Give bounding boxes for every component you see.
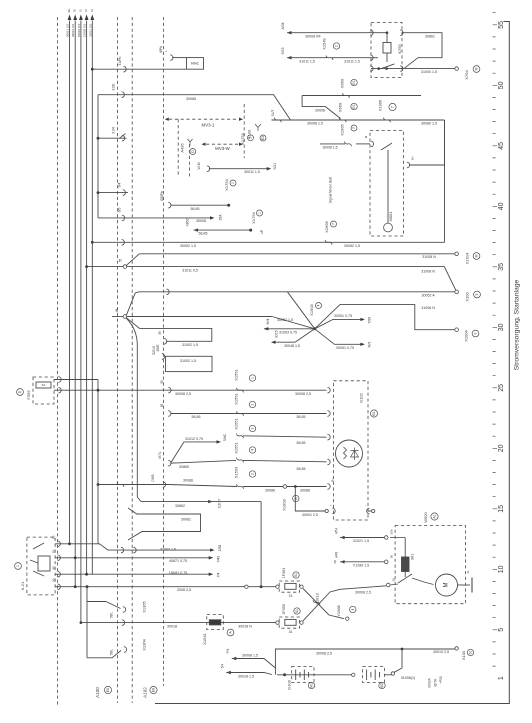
arrow head bus 30012	[73, 15, 77, 21]
svg-text:Ø5/Pb: Ø5/Pb	[160, 191, 164, 201]
motor circle inside M001	[384, 223, 393, 232]
svg-text:31: 31	[289, 594, 293, 598]
terminal Y1988 open circle	[346, 617, 349, 620]
svg-text:30085: 30085	[186, 97, 196, 101]
fan wire loop row 328	[140, 328, 212, 341]
terminal X1614 open circle	[455, 252, 459, 256]
junction on X1903B row for G102 low pin	[294, 485, 297, 488]
wire K-21 pin85 row	[55, 573, 210, 575]
junction row 649 at x402	[401, 648, 404, 651]
fuse F354 box	[279, 581, 299, 592]
svg-text:B1: B1	[372, 411, 376, 415]
circle 4 X1551	[249, 447, 255, 453]
svg-text:M: M	[475, 67, 479, 70]
svg-text:45: 45	[498, 142, 505, 150]
connector arc at A102 right edge row 485	[163, 482, 166, 488]
svg-text:2: 2	[251, 403, 255, 405]
svg-text:30048 1,5: 30048 1,5	[284, 344, 300, 348]
wire diagonal 543 to 550	[100, 544, 109, 550]
svg-text:Stromversorgung, Startanlage: Stromversorgung, Startanlage	[513, 279, 520, 370]
svg-text:2: 2	[251, 473, 255, 475]
wire 30040 horizontal	[92, 68, 186, 70]
relay K-21 coil box	[38, 556, 50, 571]
svg-text:58,85: 58,85	[192, 415, 201, 419]
svg-text:E1: E1	[352, 80, 356, 84]
svg-text:X1966: X1966	[324, 220, 329, 232]
wire diagonal into row 501	[137, 497, 141, 502]
wire 31002 row 550	[108, 549, 212, 551]
inline connector X1541 box	[207, 615, 224, 630]
wire F399 lower out 30008	[54, 389, 170, 391]
wire 130L row 57 left	[287, 57, 327, 59]
svg-text:X1754: X1754	[224, 178, 229, 190]
svg-text:X1551: X1551	[234, 368, 239, 380]
svg-text:61: 61	[469, 651, 473, 655]
wire stub M001 left	[356, 143, 370, 145]
wire bus 30011 vertical	[69, 21, 71, 544]
arrowhead MV3-1 left	[165, 118, 169, 121]
svg-text:X1541: X1541	[202, 632, 207, 644]
svg-text:30008 2,5: 30008 2,5	[175, 392, 191, 396]
connector X1551 pin 3	[237, 434, 244, 439]
svg-text:X1903: X1903	[282, 498, 287, 510]
wire 30008 row 120	[272, 119, 445, 121]
svg-text:31002 1,5: 31002 1,5	[182, 343, 198, 347]
wire Y1289 1,5	[340, 561, 384, 563]
wire row 486 to G102 B+	[287, 486, 327, 488]
junction on vertical (row 192)	[97, 191, 100, 194]
svg-text:30008 1,5: 30008 1,5	[322, 146, 337, 150]
wire row 205 to splice X1754	[170, 204, 228, 206]
circle 1 at X1754 pin1	[248, 135, 254, 141]
circle 61 at F355	[294, 608, 300, 614]
svg-text:30086: 30086	[265, 488, 275, 492]
connector arc at A102 edge row 413	[168, 411, 171, 417]
wire net2 staircase	[302, 96, 340, 119]
svg-text:30012 0,5: 30012 0,5	[71, 24, 75, 38]
connector arc G102 row413	[327, 411, 330, 417]
wire loop 30081	[128, 508, 201, 540]
svg-text:6: 6	[474, 332, 478, 334]
svg-text:31011 1,5: 31011 1,5	[299, 59, 315, 63]
connector arc K-21 pin 86	[58, 541, 61, 547]
svg-text:3: 3	[251, 427, 255, 429]
svg-text:55: 55	[119, 259, 123, 263]
connector arc G102 row486 B+	[327, 484, 330, 490]
svg-text:30008 1,5: 30008 1,5	[242, 653, 258, 657]
circle D at F399	[17, 389, 24, 396]
wire row 486 to X1903B	[168, 485, 237, 487]
wire row 501 extension	[210, 501, 262, 503]
terminal circle E6 of A100	[104, 686, 111, 693]
wire crossover northeast arm diagonal	[315, 319, 333, 328]
circle 3 X1551	[249, 425, 255, 431]
circle 7 at X1966 pin b	[331, 221, 337, 227]
svg-text:6/5: 6/5	[118, 208, 122, 213]
svg-text:MV3-W: MV3-W	[215, 146, 230, 151]
starter coil lead up	[404, 538, 406, 558]
svg-text:30862: 30862	[175, 504, 185, 508]
wire vertical distribution inside A100 upper	[97, 95, 99, 218]
circle 6 at X1004	[472, 330, 479, 337]
svg-text:A100: A100	[95, 687, 100, 698]
svg-text:X1966: X1966	[340, 123, 345, 135]
arrowhead row 557 right	[209, 556, 214, 559]
svg-text:31003 0,75: 31003 0,75	[279, 331, 297, 335]
connector arc at A102 edge (NN1 wire)	[170, 55, 173, 61]
frame right border	[155, 22, 509, 704]
connector arc M001 right pin row165	[407, 162, 410, 168]
svg-text:31008(1): 31008(1)	[401, 676, 415, 680]
wire F399 upper corner down	[97, 380, 99, 544]
svg-text:30086: 30086	[183, 478, 193, 482]
circle A1 at W500	[431, 513, 438, 520]
arrowhead MV3-1 right	[239, 118, 243, 121]
svg-text:55: 55	[498, 21, 505, 29]
svg-text:40: 40	[498, 202, 505, 210]
connector arc G102 low pin left	[332, 508, 335, 514]
svg-text:C2/17: C2/17	[218, 499, 222, 508]
svg-text:30: 30	[160, 380, 164, 384]
wire row 413 to G102	[170, 413, 326, 415]
connector arc row 622 at A100 edge	[122, 620, 125, 626]
junction bus5 / wire row 242	[91, 241, 94, 244]
relay K-21 box	[27, 537, 55, 595]
arrowhead MV3-W left	[202, 143, 206, 146]
branch wire 31012	[184, 441, 218, 443]
svg-text:35/E: 35/E	[156, 344, 160, 352]
arrowhead battery feed upper	[232, 657, 237, 660]
wire inside K755 row57	[371, 57, 378, 59]
svg-text:-: -	[363, 505, 367, 506]
svg-text:30861: 30861	[425, 34, 435, 38]
svg-text:30008 2,5: 30008 2,5	[295, 392, 311, 396]
arrowhead row 574 right	[209, 573, 214, 576]
wire M-CAN row 168	[209, 168, 268, 170]
wire row 463 to X1551 pin4	[170, 460, 236, 463]
wire row 436 to G102	[243, 436, 327, 437]
connector pin open circle fan node	[123, 315, 127, 319]
svg-text:35: 35	[158, 331, 162, 335]
module A435 right boundary	[189, 144, 191, 177]
relay K-21 switch sym	[33, 571, 44, 576]
junction on vertical (row 138)	[97, 137, 100, 140]
generator diode symbol	[351, 448, 359, 461]
connector arc at A100 edge row 242	[122, 240, 125, 246]
circle 1 at splice X1754	[230, 180, 236, 186]
arrow head bus 15010	[79, 15, 83, 21]
wire row 143 left	[320, 143, 345, 145]
junction x261 row 586	[260, 585, 263, 588]
component A100 right boundary	[117, 17, 119, 703]
wire battery2 terminal up	[394, 649, 402, 672]
svg-text:98: 98	[115, 309, 119, 313]
junction bus5 / wire 30040	[91, 68, 94, 71]
circle 61 at F354	[293, 572, 299, 578]
svg-text:30010 2,5: 30010 2,5	[433, 650, 449, 654]
arrow head bus 30011	[68, 15, 72, 21]
svg-text:58/L: 58/L	[110, 612, 114, 618]
svg-text:E6: E6	[106, 688, 110, 692]
wire inside K755 row33	[371, 32, 387, 34]
svg-text:10: 10	[498, 565, 505, 573]
connector X1551 pin 4	[237, 458, 244, 463]
svg-text:X852: X852	[186, 218, 190, 226]
svg-text:30052 1,5: 30052 1,5	[344, 244, 360, 248]
svg-text:35A: 35A	[219, 214, 223, 221]
wire 30052 row 242	[92, 241, 444, 243]
wire 30008 row 33	[287, 32, 371, 34]
connector arc K755 right row68	[400, 66, 403, 72]
connector X1966 pin a on wire 30008	[384, 118, 391, 123]
svg-text:30086: 30086	[300, 488, 310, 492]
wire K-21 pin86 row	[55, 543, 99, 545]
svg-text:4/Pb: 4/Pb	[159, 46, 163, 53]
junction bus4 / row 266	[85, 265, 88, 268]
wire row 460 to G102	[243, 460, 327, 461]
wire diagonal into X1903 node	[287, 292, 314, 329]
svg-text:W500: W500	[423, 512, 428, 523]
connector arc row 138	[122, 135, 125, 141]
svg-text:7/4: 7/4	[217, 573, 221, 578]
svg-text:X100: X100	[461, 650, 466, 660]
arrowhead crossover west	[264, 327, 269, 330]
junction vertical x98 and F399 lower	[97, 389, 100, 392]
svg-text:30018 N: 30018 N	[238, 624, 252, 628]
splice point row 230	[249, 229, 252, 232]
wire crossover southeast arm	[334, 343, 362, 345]
wire F355 right diagonal up to starter	[303, 586, 386, 621]
wire vertical x=137 (fan line4)	[136, 345, 138, 497]
circle M at X764	[473, 66, 480, 73]
svg-text:NN1: NN1	[191, 61, 200, 66]
fuse F354 right terminal	[300, 585, 303, 588]
fuse F355 box	[279, 617, 299, 628]
connector arc row 550 at A100 edge	[121, 547, 124, 553]
svg-text:K755: K755	[397, 44, 402, 54]
connector arc at A100 edge wire 30085	[122, 92, 125, 98]
connector arc G102 low pin right	[367, 508, 370, 514]
wire net2 row 95	[302, 95, 421, 97]
svg-text:31000 1,5: 31000 1,5	[421, 70, 437, 74]
svg-text:31: 31	[289, 630, 293, 634]
svg-text:30008 2,5: 30008 2,5	[316, 651, 332, 655]
svg-text:1F354: 1F354	[282, 568, 286, 579]
svg-text:30: 30	[498, 323, 505, 331]
junction x87 row 586	[86, 585, 89, 588]
arrowhead branch 31012	[217, 440, 222, 443]
arrowhead 31021 left	[340, 536, 345, 539]
svg-text:1: 1	[258, 212, 262, 214]
wire row 266 corner down to X100	[445, 267, 457, 292]
circle 1 X1551	[249, 375, 255, 381]
starter switch blade	[398, 574, 412, 583]
connector arc row 168 (W-M)	[207, 166, 210, 172]
svg-text:Y1289 1,5: Y1289 1,5	[353, 564, 369, 568]
wire crossover west arm	[264, 328, 315, 330]
connector X1551 pin 1	[237, 388, 244, 393]
module A435 left boundary	[177, 119, 179, 177]
connector arc row 550 at A102 edge	[133, 547, 136, 553]
svg-text:58: 58	[160, 404, 164, 408]
svg-text:30081: 30081	[181, 518, 191, 522]
connector X1966 pin c row 143	[345, 142, 352, 147]
fan diagonal to row 329	[126, 318, 139, 329]
svg-text:P/4: P/4	[226, 648, 230, 653]
arrow to 35A	[210, 216, 215, 219]
fan wire row 316 diagonal to X1903	[272, 317, 315, 329]
connector X669 pin 1 on net2	[343, 93, 350, 98]
relay M001 contact diagonal	[381, 143, 392, 150]
svg-text:2008 2,5: 2008 2,5	[177, 588, 191, 592]
svg-text:7/42: 7/42	[217, 556, 221, 563]
svg-text:X1903: X1903	[309, 303, 314, 315]
svg-text:E1: E1	[352, 104, 356, 108]
arrowhead crossover southwest	[271, 341, 276, 344]
connector arc left end row 120	[274, 118, 281, 123]
wire 31000 out of K755	[403, 68, 456, 70]
svg-text:30018 1,5: 30018 1,5	[238, 674, 254, 678]
generator zigzag symbol	[344, 447, 347, 459]
wire vertical x=445 (30052/30008 link)	[444, 120, 446, 242]
svg-text:50: 50	[390, 555, 394, 559]
svg-text:30052 1,5: 30052 1,5	[180, 244, 196, 248]
svg-text:MV3-1: MV3-1	[202, 123, 215, 128]
circle M at X1614	[473, 253, 480, 260]
circle 9 at X100	[474, 291, 481, 298]
junction inside K755 row33	[386, 31, 389, 34]
svg-text:1: 1	[251, 377, 255, 379]
connector arc M001 left pin	[371, 141, 374, 147]
wire crossover southwest arm diagonal	[295, 329, 315, 342]
svg-text:M2: M2	[380, 683, 384, 688]
wire crossover northeast arm	[333, 318, 362, 320]
svg-text:31/4: 31/4	[112, 127, 116, 134]
svg-text:25: 25	[498, 384, 505, 392]
svg-text:4N: 4N	[333, 560, 337, 564]
wire inside K755 row 68	[379, 68, 402, 70]
junction x98 row 485.5	[97, 483, 100, 486]
junction K755 row68 b	[385, 67, 388, 70]
connector arc X1365	[123, 607, 126, 613]
connector X1551 pin 2	[237, 411, 244, 416]
open circle G102 low pin right	[372, 509, 375, 512]
svg-text:31002 1,5: 31002 1,5	[160, 548, 176, 552]
circle A at X1541	[227, 629, 234, 636]
svg-text:31/Pb: 31/Pb	[118, 56, 122, 65]
svg-text:M: M	[444, 583, 450, 588]
open circle G102 low pin left	[325, 509, 328, 512]
wire row 543 corner up x98	[98, 543, 100, 545]
module M001 box	[370, 131, 404, 237]
component A102 right boundary	[163, 17, 165, 686]
circle 1 at splice row 230	[257, 210, 263, 216]
svg-text:4/54: 4/54	[335, 528, 339, 534]
svg-text:30052 ¥: 30052 ¥	[422, 293, 435, 297]
circle 4 at X1903 node	[316, 303, 322, 309]
generator G102 symbol circle	[336, 440, 363, 467]
svg-text:20: 20	[498, 444, 505, 452]
wire battery riser to row 649	[275, 649, 455, 675]
relay K-21 contact blade	[33, 543, 44, 549]
svg-text:B+: B+	[331, 478, 335, 482]
circle B X1903 splice	[293, 495, 299, 501]
branch diagonal up from row 463	[171, 442, 184, 463]
circle E1 at X669 pin2	[351, 103, 357, 109]
junction bus3 row 622	[80, 621, 83, 624]
wire bus 31011 vertical	[91, 21, 93, 575]
starter motor M circle	[436, 574, 458, 596]
arrowhead row 501 C2/17	[208, 500, 213, 503]
svg-text:X1614: X1614	[465, 252, 470, 264]
svg-text:30008: 30008	[315, 109, 325, 113]
svg-text:G103: G103	[286, 679, 291, 690]
wire 130L 1,5 right	[332, 57, 371, 59]
fuse F355 left terminal	[276, 621, 279, 624]
arrow row 230 to left	[194, 228, 199, 231]
splice X1903 B open circle	[283, 485, 287, 489]
connector pin open circle row 266	[123, 265, 127, 269]
svg-text:D5/B: D5/B	[151, 474, 155, 481]
glyph antenna at A435	[188, 139, 193, 146]
starter contact wire	[390, 584, 398, 585]
svg-text:B+: B+	[411, 156, 415, 160]
svg-text:86: 86	[52, 535, 56, 539]
starter motor feed	[412, 578, 434, 585]
svg-text:5A: 5A	[42, 383, 46, 387]
connector X1966 pin b on wire row 242	[325, 240, 332, 245]
junction bus4 row 574	[85, 573, 88, 576]
svg-text:30018: 30018	[167, 624, 177, 628]
svg-text:X1549: X1549	[322, 37, 327, 49]
wire 30008 row 218 from vertical	[98, 217, 212, 219]
connector arc G102 row390	[327, 387, 330, 393]
connector arc at A102 edge row 356	[162, 354, 165, 360]
svg-text:31008 N: 31008 N	[422, 255, 436, 259]
svg-text:61: 61	[295, 609, 299, 613]
battery output open circle	[391, 672, 394, 675]
wire row 304 right to X1004	[315, 305, 455, 330]
connector X669 pin 2 on row 120	[339, 118, 346, 123]
wire inside K755 row 68 left	[371, 68, 379, 70]
terminal X100 open circle	[455, 290, 459, 294]
connector X1541 bar	[209, 620, 221, 625]
svg-text:S/15: S/15	[281, 47, 285, 54]
starter pin 30	[386, 583, 390, 587]
connector arc K-21 pin 85	[58, 571, 61, 577]
wire 30001 to G102 low pin	[295, 487, 325, 512]
relay K-21 linkage	[30, 560, 38, 563]
arrowhead battery feed lower	[226, 671, 231, 674]
svg-text:X1553: X1553	[234, 466, 239, 478]
fuse F354 left terminal	[276, 585, 279, 588]
svg-text:58,85: 58,85	[191, 207, 200, 211]
svg-text:1F355: 1F355	[282, 604, 286, 615]
svg-text:31008 N: 31008 N	[421, 270, 435, 274]
relay K755 coil lead	[386, 53, 388, 62]
arrowhead M-CAN to S/11	[267, 167, 272, 170]
circle M1 at G103	[308, 682, 314, 688]
svg-text:1: 1	[498, 676, 505, 680]
fuse F355 right terminal	[300, 621, 303, 624]
svg-text:30865: 30865	[179, 465, 189, 469]
circle 1 at K-21	[15, 563, 22, 570]
wire row 230	[194, 229, 251, 231]
svg-text:4: 4	[317, 304, 321, 306]
svg-text:A102: A102	[143, 687, 148, 698]
svg-text:X764: X764	[464, 70, 469, 80]
svg-text:50: 50	[498, 81, 505, 89]
